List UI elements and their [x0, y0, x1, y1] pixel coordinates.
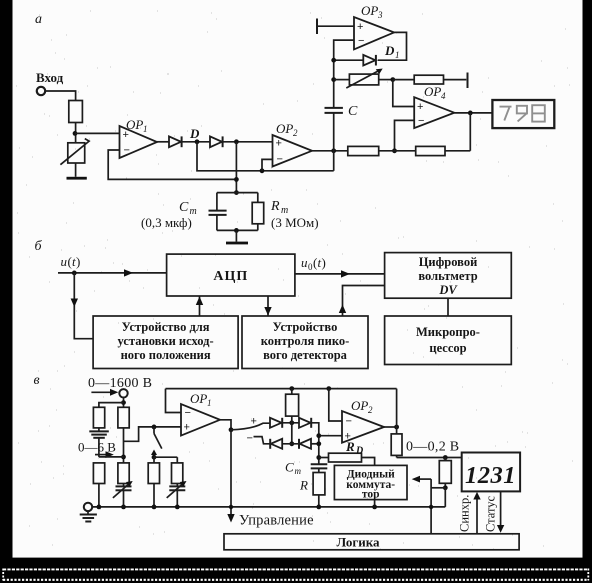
svg-text:D: D: [189, 126, 200, 141]
capacitor CA stack: [89, 428, 109, 457]
svg-text:Вход: Вход: [36, 70, 64, 85]
svg-text:Цифровой: Цифровой: [419, 255, 478, 269]
label plus probe: [251, 416, 257, 428]
wire Cm Rm top bar: [217, 192, 258, 194]
wire row2 right: [311, 443, 319, 445]
wire ADC down to peak control: [267, 296, 269, 316]
wire top feedback line: [166, 388, 397, 390]
rheostat R2: [334, 69, 383, 89]
resistor RD: [319, 453, 375, 465]
label v: [34, 373, 40, 388]
wire sense down to bus end: [444, 488, 446, 507]
label 0-6 V: [78, 440, 116, 455]
junction rheostat: [331, 77, 336, 82]
svg-text:−: −: [358, 35, 364, 47]
junction bridge top: [289, 420, 294, 425]
wire reset box to ADC: [199, 296, 201, 316]
svg-text:D: D: [384, 43, 395, 58]
arrow input HV: [91, 389, 118, 396]
label Cm value: [141, 215, 192, 230]
svg-text:3: 3: [377, 10, 383, 20]
node u(t) label: [61, 254, 81, 269]
wire OP3 + to terminal: [317, 25, 354, 27]
wire pair2 top bar: [154, 456, 177, 458]
svg-text:1: 1: [395, 50, 400, 60]
resistor R: [313, 468, 325, 507]
wire OP1 out down control: [230, 430, 232, 518]
wire junction down to OP4 +: [393, 80, 414, 107]
wire status arrow down: [497, 491, 504, 532]
svg-text:−: −: [185, 407, 191, 419]
op-amp OP3: [354, 3, 394, 49]
selection marquee top edge: [3, 568, 589, 570]
svg-text:−: −: [277, 154, 283, 166]
arrow down on u(t) drop: [71, 299, 78, 308]
svg-text:(0,3 мкф): (0,3 мкф): [141, 215, 192, 230]
junction sense bottom: [443, 485, 448, 490]
svg-text:R: R: [299, 478, 308, 493]
junction resistor node: [392, 148, 397, 153]
junction u(t): [72, 271, 77, 276]
ground symbol: [80, 515, 97, 522]
op-amp OP2: [273, 121, 313, 167]
terminal T1: [316, 19, 318, 35]
resistor R1: [69, 101, 83, 123]
input terminal: [37, 87, 45, 95]
wire R1 to node A: [75, 123, 77, 143]
junction bridge mid top: [289, 441, 294, 446]
svg-text:вого детектора: вого детектора: [263, 348, 348, 362]
arrow down into peak control: [264, 307, 271, 316]
resistor RB2 with trimmer: [113, 463, 133, 507]
svg-text:1231: 1231: [465, 462, 516, 489]
junction bus B: [121, 505, 126, 510]
svg-text:1: 1: [143, 124, 148, 134]
svg-text:): ): [76, 254, 80, 269]
svg-text:): ): [322, 255, 326, 270]
wire OP2 inverting riser: [329, 389, 342, 421]
op-amp OP1: [181, 391, 220, 436]
wire OP4 output: [454, 112, 492, 114]
svg-text:DV: DV: [438, 283, 458, 297]
junction pair2 top: [152, 455, 157, 460]
svg-text:Логика: Логика: [336, 535, 380, 550]
wire input to R1: [45, 91, 75, 101]
wire OP1 out to D: [157, 141, 169, 143]
wire OP1 inverting riser: [166, 389, 182, 413]
svg-text:Статус: Статус: [484, 495, 498, 532]
wire ground bus: [92, 506, 445, 508]
wire logic to commutator arrow: [412, 476, 431, 483]
node Cm top junction: [234, 190, 239, 195]
junction on diode line: [234, 139, 239, 144]
label minus probe: [247, 433, 253, 445]
junction divider top: [121, 400, 126, 405]
label R: [299, 478, 308, 493]
junction OP2 out: [331, 148, 336, 153]
block diode commutator: [334, 465, 407, 500]
svg-text:Синхр.: Синхр.: [458, 495, 472, 532]
resistor OP2 out: [391, 427, 402, 458]
svg-text:4: 4: [441, 91, 446, 101]
svg-text:u: u: [61, 254, 68, 269]
label 0-0.2 V: [406, 440, 459, 455]
svg-text:установки исход-: установки исход-: [118, 334, 214, 348]
diode D: [169, 136, 182, 147]
ground below Cm: [226, 242, 248, 245]
wire commutator to bus: [374, 500, 376, 507]
junction branch bus cross: [429, 505, 433, 509]
resistor sense: [439, 458, 451, 488]
junction OP2 + node: [316, 433, 321, 438]
wire R4 to node: [379, 150, 416, 152]
svg-text:+: +: [357, 21, 363, 33]
svg-text:C: C: [179, 200, 189, 215]
resistor Rm: [252, 193, 264, 231]
svg-text:R: R: [270, 199, 280, 214]
junction OP1 out: [229, 427, 234, 432]
svg-text:Устройство: Устройство: [273, 320, 338, 334]
block ADC: [167, 254, 295, 296]
wire OP3 output down: [378, 32, 407, 60]
wire OP1 inverting feedback: [108, 150, 236, 179]
wire junction down to Cm node: [235, 142, 237, 193]
svg-text:вольтметр: вольтметр: [418, 269, 477, 283]
svg-text:R: R: [345, 439, 355, 454]
selection marquee right edge: [587, 569, 589, 581]
svg-text:АЦП: АЦП: [213, 269, 248, 284]
block digital voltmeter DV: [385, 253, 512, 299]
label 0-1600 V: [88, 376, 152, 391]
wire OP2 out: [312, 150, 348, 152]
svg-text:C: C: [285, 460, 294, 475]
wire OP2 output: [384, 426, 397, 428]
resistor RB1: [118, 407, 129, 463]
svg-text:OP: OP: [351, 398, 368, 413]
arrow input LV: [95, 451, 114, 458]
terminal HV input: [119, 389, 127, 397]
node A junction: [73, 131, 78, 136]
svg-text:0—1600 В: 0—1600 В: [88, 376, 152, 391]
wire D1 anode to node: [334, 59, 364, 61]
block reset device: [93, 316, 238, 369]
junction bus commutator: [372, 505, 377, 510]
op-amp OP4: [414, 84, 454, 128]
wire probe plus curve: [231, 423, 270, 430]
svg-text:2: 2: [293, 128, 298, 138]
diode VD1: [270, 418, 282, 428]
svg-text:+: +: [184, 422, 190, 434]
svg-text:+: +: [417, 101, 423, 113]
svg-text:−: −: [346, 416, 352, 428]
node Vhod label: [36, 70, 64, 85]
wire u(t) down to reset box: [74, 273, 93, 339]
label Cm: [285, 460, 302, 477]
junction bus D: [175, 505, 180, 510]
junction OP4 + node: [390, 77, 395, 82]
svg-text:+: +: [276, 138, 282, 150]
wire sense bottom left: [431, 487, 445, 489]
wire diode row2: [282, 443, 299, 445]
arrow up into ADC: [196, 297, 203, 306]
svg-text:ного положения: ного положения: [121, 348, 211, 362]
wire rheostat to junction: [379, 79, 393, 81]
label sync: [458, 495, 472, 532]
svg-text:OP: OP: [190, 391, 207, 406]
wire peak control to DV: [343, 286, 385, 317]
wire tap to OP1 +: [124, 427, 182, 441]
junction feedback line: [234, 177, 239, 182]
wire OP2 + input: [319, 435, 342, 437]
svg-text:−: −: [247, 433, 253, 445]
wire to OP2 inverting input: [262, 159, 273, 170]
resistor R5 feedback: [416, 146, 445, 155]
diode D2: [210, 136, 223, 147]
arrow control down: [227, 514, 234, 523]
varistor RU: [60, 139, 89, 165]
wire pair1 top bar: [99, 456, 124, 458]
block 1231: [462, 453, 520, 492]
op-amp OP2: [342, 398, 384, 443]
junction bottom bar: [234, 228, 239, 233]
wire D to second diode: [182, 141, 210, 143]
label Rm: [270, 199, 288, 216]
label Cm: [179, 200, 197, 217]
label Upravlenie: [239, 513, 314, 529]
svg-text:Управление: Управление: [239, 513, 314, 529]
junction control bus cross: [229, 505, 233, 509]
diode D1: [363, 55, 376, 66]
wire Cm Rm bottom bar: [217, 229, 258, 231]
node u0(t) label: [301, 255, 326, 272]
junction divider mid: [121, 455, 126, 460]
junction top line R: [289, 386, 294, 391]
wire ADC to DV: [295, 273, 385, 275]
resistor RC: [148, 457, 159, 507]
resistor RA1: [93, 407, 104, 428]
switch S1: [151, 427, 162, 455]
svg-text:0—0,2 В: 0—0,2 В: [406, 440, 459, 455]
junction OP2 out: [394, 425, 399, 430]
arrow into ADC: [124, 269, 133, 276]
wire branch vertical: [430, 479, 432, 534]
block microprocessor: [385, 316, 512, 365]
capacitor C: [325, 108, 343, 171]
junction top line OP2: [326, 386, 331, 391]
resistor bridge top: [286, 389, 299, 444]
svg-text:б: б: [35, 239, 43, 254]
node D junction: [195, 139, 200, 144]
svg-text:+: +: [123, 129, 129, 141]
junction bus A: [97, 505, 102, 510]
label a: [35, 12, 42, 27]
selection marquee left edge: [2, 569, 4, 581]
svg-text:−: −: [418, 115, 424, 127]
junction bus C: [152, 505, 157, 510]
ground terminal: [84, 503, 92, 514]
resistor RD2 with trimmer: [167, 457, 187, 507]
junction bus R: [316, 505, 321, 510]
node D label: [189, 126, 200, 141]
wire top bar divider: [99, 403, 124, 408]
wire OP3 inverting to vertical node: [334, 40, 354, 108]
block logic: [224, 534, 519, 550]
resistor RA2: [93, 463, 104, 507]
wire row1 right down: [311, 423, 319, 465]
wire D2 to OP2 +: [223, 141, 273, 143]
junction D1: [331, 58, 336, 63]
wire probe minus hook: [254, 437, 271, 444]
ground: [67, 177, 87, 180]
svg-text:тор: тор: [362, 489, 380, 501]
block peak control device: [242, 316, 368, 369]
svg-text:цессор: цессор: [429, 341, 466, 355]
label b: [35, 239, 43, 254]
wire to ground: [235, 230, 237, 241]
resistor R4: [348, 146, 379, 155]
svg-text:а: а: [35, 12, 42, 27]
terminal T2: [467, 73, 469, 89]
label D1: [384, 43, 400, 60]
svg-text:u: u: [301, 255, 308, 270]
wire R5 to OP4 out drop: [445, 150, 470, 152]
resistor R3: [393, 75, 467, 84]
svg-text:−: −: [124, 145, 130, 157]
svg-text:0—6 В: 0—6 В: [78, 440, 116, 455]
svg-text:Устройство для: Устройство для: [122, 320, 210, 334]
svg-text:1: 1: [207, 398, 212, 408]
label RD: [345, 439, 363, 457]
display indicator 798: [492, 100, 554, 128]
wire diode row1: [282, 422, 299, 424]
svg-text:C: C: [348, 104, 358, 119]
junction out line: [443, 455, 448, 460]
label C: [348, 104, 358, 119]
diode VD3: [270, 439, 282, 449]
capacitor Cm: [311, 464, 328, 468]
label status: [484, 495, 498, 532]
wire OP2 feedback riser: [396, 389, 398, 427]
wire OP4 inverting to resistor node: [395, 120, 415, 150]
junction OP4 out: [468, 111, 473, 116]
wire node A to OP1 +: [75, 132, 120, 134]
svg-text:OP: OP: [276, 121, 293, 136]
wire sync arrow up: [473, 492, 480, 534]
op-amp OP1: [120, 117, 158, 158]
wire varistor to ground: [75, 163, 77, 177]
arrow into DV: [341, 270, 350, 277]
junction row2 right: [316, 441, 321, 446]
svg-text:D: D: [355, 446, 363, 457]
svg-text:m: m: [295, 466, 302, 476]
selection marquee bottom edge: [3, 579, 589, 581]
svg-text:в: в: [34, 373, 40, 388]
capacitor Cm: [209, 193, 227, 231]
svg-text:Микропро-: Микропро-: [416, 325, 480, 339]
svg-text:2: 2: [368, 405, 373, 415]
wire terminal to divider top: [123, 398, 125, 408]
wire u(t) to ADC: [58, 272, 167, 274]
svg-text:контроля пико-: контроля пико-: [261, 334, 350, 348]
wire OP1 output: [220, 420, 231, 430]
diode VD2: [299, 418, 311, 428]
svg-text:OP: OP: [424, 84, 441, 99]
junction OP2 inverting drop: [260, 168, 265, 173]
junction switch top: [152, 425, 157, 430]
svg-text:(3 МОм): (3 МОм): [271, 215, 319, 230]
diode VD4: [299, 439, 311, 449]
svg-text:OP: OP: [361, 3, 378, 18]
wire DV to microprocessor: [447, 298, 449, 316]
wire node D down and right to OP2 inverting branch: [197, 142, 334, 171]
label Rm value: [271, 215, 319, 230]
junction RD tap: [316, 455, 321, 460]
wire out line to 1231: [397, 457, 462, 459]
wire OP4 out down to feedback: [469, 113, 471, 151]
arrow up on peak-DV wire: [339, 305, 346, 314]
